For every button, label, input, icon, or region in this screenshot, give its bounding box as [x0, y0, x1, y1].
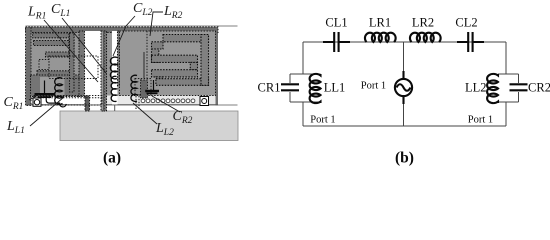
svg-text:(b): (b): [395, 150, 414, 167]
svg-text:CR1: CR1: [258, 81, 281, 95]
svg-text:Port 1: Port 1: [310, 115, 335, 126]
svg-text:LR1: LR1: [27, 5, 46, 22]
svg-text:LL2: LL2: [465, 81, 487, 95]
svg-text:Port 1: Port 1: [468, 115, 493, 126]
svg-text:Port 1: Port 1: [361, 81, 386, 92]
svg-text:CL1: CL1: [325, 16, 347, 30]
svg-text:CL2: CL2: [455, 16, 477, 30]
svg-text:CR2: CR2: [528, 81, 550, 95]
svg-text:CR1: CR1: [4, 95, 24, 112]
svg-text:LR2: LR2: [163, 4, 183, 21]
svg-text:LL1: LL1: [6, 119, 25, 136]
svg-text:(a): (a): [103, 150, 121, 167]
svg-text:LL1: LL1: [324, 81, 346, 95]
svg-text:CL2: CL2: [133, 1, 153, 18]
svg-text:LR2: LR2: [412, 16, 434, 30]
svg-text:CL1: CL1: [51, 2, 70, 19]
svg-text:LR1: LR1: [369, 16, 391, 30]
